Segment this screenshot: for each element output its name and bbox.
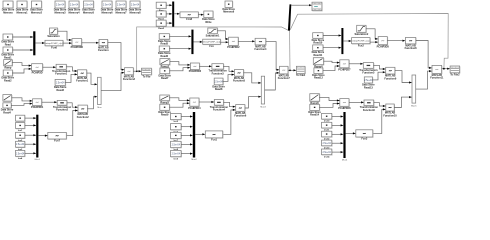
wire R7 to M4	[169, 48, 191, 50]
svg-text:Read10: Read10	[313, 42, 323, 45]
svg-text:Ramp: Ramp	[4, 66, 11, 69]
wire M4 to Fcn	[194, 41, 203, 43]
to file W3	[296, 66, 306, 77]
wire P5 to T3	[199, 65, 211, 67]
wire MF11 to Mux5 input2	[394, 96, 412, 108]
wire R12 to M6	[323, 47, 341, 49]
svg-text:PCHIP3D8: PCHIP3D8	[338, 107, 351, 110]
svg-text:PCHIP3D4: PCHIP3D4	[188, 107, 201, 110]
data store read R9	[212, 78, 225, 91]
wire P6 to T4	[199, 101, 214, 103]
wire RA4 to P6	[169, 98, 189, 102]
svg-text:Mux4: Mux4	[342, 160, 348, 162]
wire top T3 to M3	[166, 22, 172, 24]
svg-text:Memory2: Memory2	[31, 11, 43, 14]
wire stack L3 to M2	[25, 134, 36, 136]
svg-text:PCHIP3D6: PCHIP3D6	[71, 46, 84, 49]
svg-text:To File: To File	[143, 75, 151, 78]
svg-text:Function3: Function3	[212, 72, 225, 75]
svg-text:Read14: Read14	[310, 114, 320, 117]
svg-text:Read13: Read13	[364, 86, 374, 89]
wire S3 to P7 upper input	[366, 29, 378, 40]
matlab function MF3	[77, 105, 90, 119]
wire M5 to FcnE	[195, 133, 205, 135]
data store read R4	[54, 79, 67, 91]
wire F1 to P4	[220, 41, 228, 43]
wire stack R2 to M7	[332, 124, 343, 126]
data store memory M9	[222, 1, 235, 14]
wire MF9 down to MF12 input1	[416, 41, 432, 70]
wire stack L1 to M2	[25, 117, 36, 119]
svg-text:lev14: lev14	[324, 155, 330, 158]
interp P8	[338, 60, 351, 72]
wire M6 to Fcn2	[343, 40, 351, 42]
wire R8 to P5	[170, 67, 191, 71]
scope block	[312, 2, 322, 11]
data store memory Memory2	[30, 1, 43, 14]
svg-text:Function8: Function8	[405, 47, 418, 50]
wire Fcn7 up to MF3	[66, 109, 77, 135]
data store read R5	[1, 103, 14, 115]
svg-text:2.5e+04: 2.5e+04	[70, 4, 79, 6]
wire R14 to MF10	[372, 71, 385, 80]
svg-text:Mux1: Mux1	[35, 159, 41, 161]
svg-text:To File1: To File1	[296, 74, 306, 77]
svg-text:PCHIP3D7: PCHIP3D7	[338, 68, 351, 71]
wire M3 to Fcn8	[174, 13, 180, 15]
svg-text:2.5e+04: 2.5e+04	[117, 4, 126, 6]
data store memory Memory5	[82, 1, 95, 14]
svg-text:Fcn1: Fcn1	[211, 139, 217, 142]
data store read stack R2	[322, 122, 333, 131]
wire S2 to P4 upper input	[217, 31, 228, 40]
matlab function MF2	[76, 70, 89, 83]
wire M1 to Fcn6	[35, 42, 44, 44]
svg-text:Read11: Read11	[313, 54, 322, 57]
svg-text:2.5e+04: 2.5e+04	[103, 4, 112, 6]
svg-text:Function1: Function1	[55, 73, 68, 76]
fcn F2	[352, 38, 371, 48]
wire MF12 to W4	[442, 68, 450, 70]
wire P7 to MF9	[387, 40, 405, 42]
mux Mux4 (tall)	[260, 76, 266, 108]
data store memory Memory4	[68, 1, 81, 14]
svg-text:Function11: Function11	[430, 77, 444, 80]
mux Mux3 (tall)	[97, 77, 102, 109]
svg-text:Function10: Function10	[383, 114, 397, 117]
wire FcnE2 up to MF11	[373, 108, 386, 133]
saturation S3	[354, 25, 368, 36]
data store read stack M5	[171, 151, 182, 161]
wire MF7 to Mux4 input2	[245, 96, 261, 108]
wire R2 to M1	[13, 49, 34, 51]
wire T1 to MF2	[66, 67, 77, 72]
svg-text:Read9: Read9	[161, 114, 169, 117]
interp P4	[227, 37, 240, 49]
svg-text:Raw2: Raw2	[158, 28, 164, 30]
svg-text:2.5e+04: 2.5e+04	[56, 82, 65, 84]
wire RA3 to P5	[170, 62, 190, 66]
wire Mux3 to MF4 input2	[101, 72, 124, 91]
svg-text:Write: Write	[205, 21, 212, 24]
ramp RA2	[3, 95, 12, 102]
wire top T1 to M3	[166, 4, 172, 6]
wire stack M2 to M5	[181, 126, 193, 128]
svg-text:interpPCHIP_c(u): interpPCHIP_c(u)	[45, 42, 62, 45]
svg-text:Function6: Function6	[234, 115, 247, 118]
transformation function T1	[52, 64, 71, 75]
data store read top T3	[156, 20, 166, 30]
wire F6 to P1	[63, 42, 72, 44]
data store read stack R1	[322, 113, 333, 122]
svg-text:Memory5: Memory5	[83, 11, 95, 14]
data store read stack M3	[171, 132, 182, 142]
data store write W2	[202, 11, 215, 24]
ramp RA3	[160, 59, 170, 69]
svg-text:2.5e+04: 2.5e+04	[322, 143, 331, 145]
svg-text:Fcn: Fcn	[209, 45, 214, 48]
fcn F8	[180, 12, 199, 21]
svg-text:Read2: Read2	[4, 79, 12, 82]
wire stack L2 to M2	[25, 124, 36, 126]
wire R15 to P9	[319, 102, 339, 107]
svg-text:2.5e+04: 2.5e+04	[16, 153, 25, 155]
mux M6	[341, 28, 343, 54]
wire J2 feedback up to big mux	[289, 31, 291, 71]
data store read stack L2	[16, 123, 26, 133]
matlab function MF7	[234, 105, 247, 118]
data store read R3	[2, 70, 15, 82]
ramp RA4	[160, 95, 170, 104]
wire RA1 to P2	[12, 63, 31, 67]
data store read stack M4	[171, 141, 182, 151]
interp P6	[188, 98, 201, 110]
mux M4	[191, 30, 193, 54]
wire MF6 to Mux4 input1	[244, 73, 262, 84]
wire Mux4 to MF8 input2	[265, 72, 280, 90]
wire P2 to T1	[43, 66, 56, 68]
wire stack R5 to M7	[332, 151, 343, 153]
wire MF3 to Mux3 input2	[87, 96, 97, 109]
data store memory Memory1	[16, 1, 29, 14]
saturation S2	[206, 28, 220, 37]
svg-text:Memory9: Memory9	[223, 11, 235, 14]
transformation function T5	[359, 63, 378, 75]
wire T4 to MF7	[224, 102, 236, 108]
matlab function MF8	[278, 66, 291, 80]
wire Fcn8 to W2	[198, 14, 203, 16]
svg-text:Function2: Function2	[56, 109, 69, 112]
mux Mux5 (tall)	[411, 75, 417, 108]
matlab function MF10	[384, 67, 397, 80]
wire R11 to M6	[323, 34, 341, 36]
matlab function MF1	[98, 40, 109, 53]
wire T5 to MF10	[374, 65, 386, 70]
data store read stack L4	[16, 141, 26, 151]
saturation S1	[47, 28, 60, 38]
data store read stack M1	[171, 113, 182, 123]
svg-text:interpPCHIP_c(u): interpPCHIP_c(u)	[203, 41, 220, 44]
matlab function MF4	[123, 68, 136, 81]
wire T3 to MF6	[223, 66, 234, 72]
svg-text:Function1: Function1	[76, 80, 89, 83]
svg-text:Fcn8: Fcn8	[186, 18, 192, 21]
wire P1 to MF1	[82, 42, 99, 44]
matlab function MF11	[383, 104, 397, 117]
svg-text:Memory3: Memory3	[55, 11, 67, 14]
svg-text:Read5: Read5	[161, 43, 169, 46]
svg-text:Read7: Read7	[161, 77, 169, 80]
data store memory Memory	[2, 1, 15, 14]
svg-text:Function5: Function5	[362, 72, 375, 75]
wire stack M5 to M5	[181, 153, 193, 155]
interp P7	[377, 37, 390, 49]
svg-text:Function4: Function4	[213, 109, 226, 112]
wire R4 to MF2	[65, 73, 77, 82]
junction J2	[289, 69, 291, 71]
svg-text:To File2: To File2	[450, 73, 460, 76]
wire stack M1 to M5	[181, 115, 193, 117]
ramp RA6	[310, 94, 320, 105]
fcn F10	[356, 130, 374, 141]
wire stack R1 to M7	[332, 115, 343, 117]
svg-text:Saturation1: Saturation1	[206, 34, 220, 37]
svg-text:Read1: Read1	[4, 56, 12, 59]
wire RA6 to P9	[319, 97, 339, 101]
mux M5	[191, 112, 197, 161]
wire R13 to P8	[323, 65, 340, 71]
wire MF5 down to MF8 input1	[266, 42, 279, 71]
data store read R15	[308, 104, 321, 116]
wire R1 to M1	[13, 36, 34, 38]
wire RA5 to P8	[324, 61, 340, 64]
wire P8 to T5	[349, 63, 363, 65]
svg-text:interpPCHIP_c(u): interpPCHIP_c(u)	[352, 40, 369, 43]
svg-text:Fcn6: Fcn6	[51, 46, 57, 49]
svg-text:Mux3: Mux3	[260, 106, 266, 108]
data store read R12	[312, 45, 325, 57]
wire R3 to P2	[12, 68, 31, 73]
svg-text:2.5e+04: 2.5e+04	[322, 152, 331, 154]
data store memory Memory7	[115, 1, 128, 14]
fcn F6	[45, 40, 64, 49]
svg-text:Memory: Memory	[3, 11, 13, 14]
data store read R13	[312, 68, 325, 80]
svg-text:2.5e+04: 2.5e+04	[84, 4, 93, 6]
fcn F9	[205, 131, 223, 142]
mux M1	[33, 31, 35, 55]
svg-text:2.5e+04: 2.5e+04	[214, 81, 223, 83]
svg-text:Read8: Read8	[215, 88, 223, 91]
svg-text:Mux5: Mux5	[411, 106, 417, 108]
wire big mux to scope	[291, 4, 312, 6]
svg-text:Function2: Function2	[77, 116, 90, 119]
data store read R2	[1, 47, 14, 59]
data store read R8	[158, 68, 171, 80]
svg-text:PCHIP3D2: PCHIP3D2	[227, 46, 240, 49]
wire FcnE up to MF7	[223, 109, 236, 135]
wire top T2 to M3	[166, 13, 172, 15]
data store memory Memory3	[54, 1, 67, 14]
wire P9 to T6	[349, 101, 364, 103]
svg-text:Saturation2: Saturation2	[354, 33, 368, 36]
interp P2	[32, 64, 44, 75]
matlab function MF9	[405, 38, 418, 51]
wire MF10 to Mux5 input1	[395, 71, 412, 84]
fcn F7	[48, 132, 67, 142]
svg-text:Fcn7: Fcn7	[54, 140, 60, 143]
mux M7	[342, 112, 348, 162]
transformation function T2	[53, 100, 72, 111]
wire stack M3 to M5	[181, 134, 193, 136]
interp P3	[31, 99, 44, 109]
data store read stack R5	[322, 149, 333, 158]
ramp RA5	[313, 58, 324, 69]
svg-text:Function9: Function9	[384, 77, 397, 80]
wire S1 to P1 upper input	[58, 31, 72, 41]
svg-text:2.5e+04: 2.5e+04	[172, 154, 181, 156]
svg-text:Function4: Function4	[254, 48, 267, 51]
data store read R14	[362, 77, 375, 89]
wire P4 to MF5	[238, 40, 255, 42]
wire R9 to MF6	[223, 74, 234, 82]
wire stack L4 to M2	[25, 143, 36, 145]
svg-text:Fcn3: Fcn3	[361, 138, 367, 141]
wire R5 to P3	[11, 103, 32, 106]
transformation function T6	[360, 100, 379, 112]
svg-text:Function7: Function7	[278, 77, 291, 80]
transformation function T4	[210, 100, 229, 112]
svg-text:2.5e+04: 2.5e+04	[131, 4, 140, 6]
wire right feedback long	[290, 14, 448, 69]
svg-text:Read12: Read12	[314, 77, 324, 80]
wire stack R3 to M7	[332, 133, 343, 135]
svg-text:Fcn2: Fcn2	[358, 44, 364, 47]
wire M2 to Fcn7	[38, 135, 47, 137]
data store read stack L1	[16, 115, 26, 125]
interp P9	[338, 99, 351, 110]
svg-text:2.5e+04: 2.5e+04	[364, 80, 373, 82]
svg-text:Function3: Function3	[123, 78, 136, 81]
wire F2 to P7	[370, 41, 378, 43]
ramp RA1	[4, 60, 13, 70]
svg-text:Mux2: Mux2	[191, 159, 197, 161]
wire J1 feedback up to big mux	[137, 27, 289, 71]
transformation function T3	[209, 64, 228, 76]
wire MF2 to Mux3 input1	[87, 73, 98, 85]
svg-text:Read4: Read4	[3, 111, 11, 114]
svg-text:Memory7: Memory7	[116, 11, 128, 14]
data store read stack R4	[322, 140, 333, 149]
wire P3 to T2	[42, 101, 57, 103]
wire stack L5 to M2	[25, 152, 36, 154]
fcn F1	[203, 39, 221, 48]
svg-text:Memory1: Memory1	[17, 11, 29, 14]
wire Mux5 to MF12 input2	[416, 70, 432, 89]
wire R6 to M4	[169, 35, 191, 37]
wire RA2 to P3	[12, 98, 33, 102]
svg-text:Function6: Function6	[363, 109, 376, 112]
svg-text:Saturation: Saturation	[47, 35, 60, 38]
svg-text:Read6: Read6	[161, 55, 169, 58]
svg-text:Read: Read	[5, 43, 12, 46]
mux M2	[35, 115, 41, 161]
to file W4	[450, 66, 460, 76]
data store read stack M2	[171, 124, 182, 134]
junction J1	[136, 70, 138, 72]
data store read R11	[312, 33, 325, 45]
wire MF4 to W1	[133, 70, 141, 72]
svg-text:2.5e+04: 2.5e+04	[172, 144, 181, 146]
svg-text:Memory4: Memory4	[69, 11, 81, 14]
svg-text:2.5e+04: 2.5e+04	[16, 144, 25, 146]
svg-text:Memory6: Memory6	[102, 11, 114, 14]
svg-text:2.5e+04: 2.5e+04	[56, 4, 65, 6]
big mux bar	[288, 4, 291, 30]
svg-text:Function: Function	[98, 49, 109, 52]
data store read R10	[158, 104, 171, 116]
wire MF1 down to MF4 input1	[108, 43, 125, 71]
data store memory Memory6	[101, 1, 114, 14]
data store read stack L3	[16, 132, 26, 142]
wire R10 to P6	[169, 102, 189, 107]
wire stack R4 to M7	[332, 142, 343, 144]
data store read stack R3	[322, 131, 333, 140]
data store read R6	[158, 34, 171, 46]
wire T6 to MF11	[374, 103, 386, 107]
data store read stack L5	[16, 150, 26, 160]
svg-text:PCHIP3D1: PCHIP3D1	[31, 106, 44, 109]
svg-text:Read3: Read3	[56, 89, 64, 92]
matlab function MF12	[430, 65, 444, 79]
data store memory Memory8	[129, 1, 142, 14]
svg-text:Function5: Function5	[233, 80, 246, 83]
svg-text:Memory8: Memory8	[130, 11, 142, 14]
data store read R7	[158, 46, 171, 58]
matlab function MF5	[254, 38, 267, 51]
to file W1	[142, 68, 152, 78]
svg-text:PCHIP3D: PCHIP3D	[32, 71, 43, 74]
interp P5	[189, 63, 202, 73]
data store read R1	[1, 34, 14, 46]
matlab function MF6	[233, 70, 246, 83]
data store read top T2	[156, 11, 166, 21]
mux M3	[172, 2, 174, 27]
wire M7 to FcnE2	[346, 132, 356, 134]
svg-text:PCHIP3D3: PCHIP3D3	[189, 70, 202, 73]
junction J3	[443, 68, 445, 70]
wire stack M4 to M5	[181, 143, 193, 145]
interp P1	[71, 39, 84, 50]
data store read top T1	[156, 2, 166, 12]
svg-text:PCHIP3D5: PCHIP3D5	[377, 45, 390, 48]
wire MF8 to W3	[288, 69, 296, 71]
wire T2 to MF3	[67, 103, 78, 109]
